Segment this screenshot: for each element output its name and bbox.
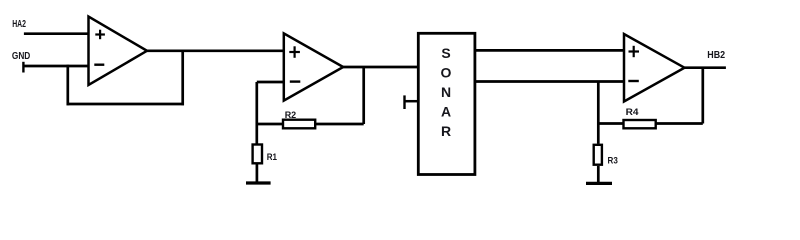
ground G1 bbox=[246, 181, 271, 184]
svg-text:R2: R2 bbox=[285, 110, 297, 121]
op-amp U1 bbox=[89, 17, 148, 86]
svg-text:R4: R4 bbox=[626, 107, 640, 118]
wire U2 inverting input bbox=[257, 81, 284, 84]
wire U1 feedback vertical from GND node bbox=[66, 65, 69, 106]
resistor R2 bbox=[283, 120, 315, 129]
svg-text:R: R bbox=[441, 123, 451, 139]
wire U3 feedback right segment bbox=[655, 122, 703, 125]
wire U3 output bbox=[685, 66, 726, 69]
wire U2 feedback right segment bbox=[315, 123, 364, 126]
svg-text:A: A bbox=[441, 104, 451, 120]
wire U2 input node vertical to R1 bbox=[255, 82, 258, 144]
wire GND to U1 inverting input bbox=[23, 65, 88, 68]
svg-text:O: O bbox=[441, 65, 452, 81]
svg-text:N: N bbox=[441, 84, 451, 100]
wire U3 feedback left segment bbox=[598, 122, 623, 125]
wire SONAR to U3 noninverting input bbox=[475, 49, 624, 52]
resistor R4 bbox=[624, 120, 656, 128]
svg-text:HA2: HA2 bbox=[12, 19, 26, 30]
sonar module box bbox=[418, 33, 475, 174]
wire SONAR to U3 inverting input bbox=[475, 80, 624, 83]
wire U3 input node vertical to R3 bbox=[597, 82, 600, 144]
wire U3 feedback vertical to output bbox=[701, 68, 704, 124]
label SONAR bbox=[441, 45, 452, 139]
svg-text:R3: R3 bbox=[608, 156, 618, 167]
resistor R3 bbox=[594, 145, 602, 165]
wire U2 output to SONAR bbox=[343, 66, 418, 69]
terminal tick SONAR transducer bbox=[405, 95, 420, 109]
svg-text:S: S bbox=[441, 45, 450, 61]
wire R3 to ground bbox=[597, 166, 600, 184]
wire U2 feedback left segment bbox=[256, 123, 284, 126]
wire R1 to ground bbox=[256, 164, 259, 183]
wire U2 feedback vertical to output bbox=[362, 67, 365, 124]
op-amp U2 bbox=[284, 33, 343, 100]
terminal tick GND bbox=[22, 62, 24, 73]
resistor R1 bbox=[253, 145, 262, 164]
wire U1 feedback vertical to output bbox=[181, 51, 184, 106]
op-amp U3 bbox=[624, 34, 685, 102]
ground G2 bbox=[586, 182, 612, 185]
wire HA2 to U1 noninverting input bbox=[24, 32, 89, 35]
svg-text:R1: R1 bbox=[267, 152, 278, 163]
wire U1 output to U2 noninverting input bbox=[147, 49, 284, 52]
svg-text:GND: GND bbox=[12, 51, 30, 62]
wire U1 feedback bottom bbox=[67, 103, 185, 106]
svg-text:HB2: HB2 bbox=[707, 50, 725, 61]
